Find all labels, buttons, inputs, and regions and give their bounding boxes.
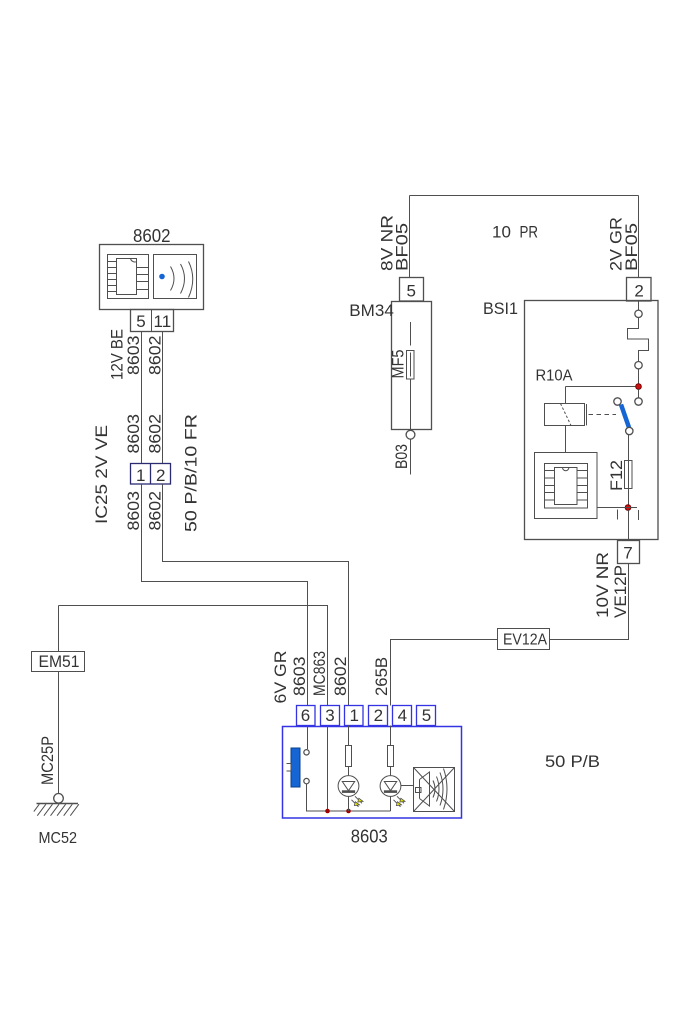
svg-text:B03: B03 bbox=[392, 444, 411, 469]
svg-text:2: 2 bbox=[374, 706, 383, 725]
svg-text:5: 5 bbox=[422, 706, 431, 725]
svg-text:2: 2 bbox=[156, 466, 165, 485]
svg-text:IC25 2V VE: IC25 2V VE bbox=[92, 425, 111, 524]
svg-text:50 P/B/10 FR: 50 P/B/10 FR bbox=[182, 414, 201, 532]
svg-text:8602: 8602 bbox=[146, 414, 165, 454]
svg-text:8602: 8602 bbox=[146, 336, 165, 376]
svg-text:10V NR: 10V NR bbox=[593, 552, 612, 618]
svg-text:VE12P: VE12P bbox=[611, 565, 630, 618]
svg-text:MF5: MF5 bbox=[389, 350, 408, 379]
svg-text:3: 3 bbox=[325, 706, 334, 725]
svg-text:7: 7 bbox=[623, 544, 632, 563]
svg-text:50 P/B: 50 P/B bbox=[545, 752, 600, 771]
svg-text:8603: 8603 bbox=[124, 414, 143, 454]
svg-text:1: 1 bbox=[136, 466, 145, 485]
svg-text:F12: F12 bbox=[607, 460, 626, 491]
svg-text:4: 4 bbox=[398, 706, 407, 725]
svg-text:R10A: R10A bbox=[536, 368, 573, 385]
svg-text:PR: PR bbox=[520, 223, 539, 242]
svg-text:10: 10 bbox=[492, 223, 511, 242]
svg-text:6: 6 bbox=[301, 706, 310, 725]
svg-text:8603: 8603 bbox=[351, 827, 388, 847]
svg-text:2: 2 bbox=[634, 282, 643, 301]
svg-text:BM34: BM34 bbox=[349, 301, 394, 320]
svg-text:8602: 8602 bbox=[331, 657, 350, 697]
svg-text:MC52: MC52 bbox=[39, 830, 78, 847]
svg-text:8602: 8602 bbox=[133, 226, 171, 246]
svg-text:11: 11 bbox=[154, 312, 172, 331]
svg-text:BF05: BF05 bbox=[622, 223, 641, 271]
svg-text:EV12A: EV12A bbox=[503, 632, 548, 649]
svg-text:BF05: BF05 bbox=[393, 223, 412, 271]
svg-text:1: 1 bbox=[350, 706, 359, 725]
svg-text:8603: 8603 bbox=[124, 491, 143, 531]
svg-text:5: 5 bbox=[407, 282, 416, 301]
svg-text:8602: 8602 bbox=[146, 491, 165, 531]
svg-text:BSI1: BSI1 bbox=[483, 299, 518, 318]
svg-text:8603: 8603 bbox=[124, 336, 143, 376]
svg-text:5: 5 bbox=[136, 312, 145, 331]
svg-text:EM51: EM51 bbox=[39, 652, 80, 671]
svg-text:265B: 265B bbox=[372, 657, 391, 696]
svg-text:MC863: MC863 bbox=[310, 651, 329, 696]
svg-text:6V GR: 6V GR bbox=[271, 651, 290, 704]
svg-text:MC25P: MC25P bbox=[38, 736, 57, 785]
svg-text:8603: 8603 bbox=[290, 657, 309, 697]
